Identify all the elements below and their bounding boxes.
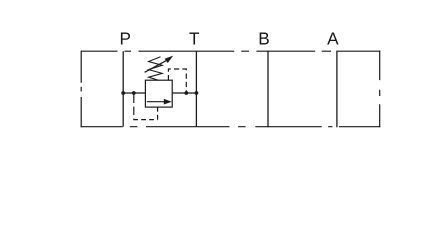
svg-text:B: B bbox=[258, 29, 269, 49]
junction dot drain tap bbox=[184, 91, 188, 95]
wire: valve outlet to T bbox=[172, 92, 196, 94]
plate outline bottom edge (chain line) bbox=[81, 126, 381, 128]
wire: port line B bbox=[267, 51, 269, 128]
pilot line (dashed) from upstream to valve bottom bbox=[133, 95, 135, 119]
drain line (dashed) from spring chamber to outlet bbox=[168, 69, 186, 93]
svg-text:T: T bbox=[189, 29, 200, 49]
junction dot on T line bbox=[195, 91, 199, 95]
junction dot pilot tap bbox=[132, 91, 136, 95]
plate outline right edge (chain line) bbox=[379, 51, 381, 128]
wire: P to valve inlet bbox=[123, 92, 145, 94]
valve V1 envelope bbox=[145, 80, 172, 107]
spring (adjustable) bbox=[149, 57, 163, 81]
spring adjustment arrow bbox=[145, 56, 174, 73]
valve V1 flow arrow bbox=[147, 99, 172, 105]
wire: port line T bbox=[195, 51, 197, 127]
wire: port line P bbox=[122, 51, 124, 127]
plate outline left edge (chain line) bbox=[80, 51, 82, 128]
svg-text:P: P bbox=[119, 29, 130, 49]
wire: port line A bbox=[336, 51, 338, 128]
junction dot on P line bbox=[121, 91, 125, 95]
plate outline top edge (chain line) bbox=[81, 50, 380, 52]
svg-text:A: A bbox=[327, 29, 339, 49]
